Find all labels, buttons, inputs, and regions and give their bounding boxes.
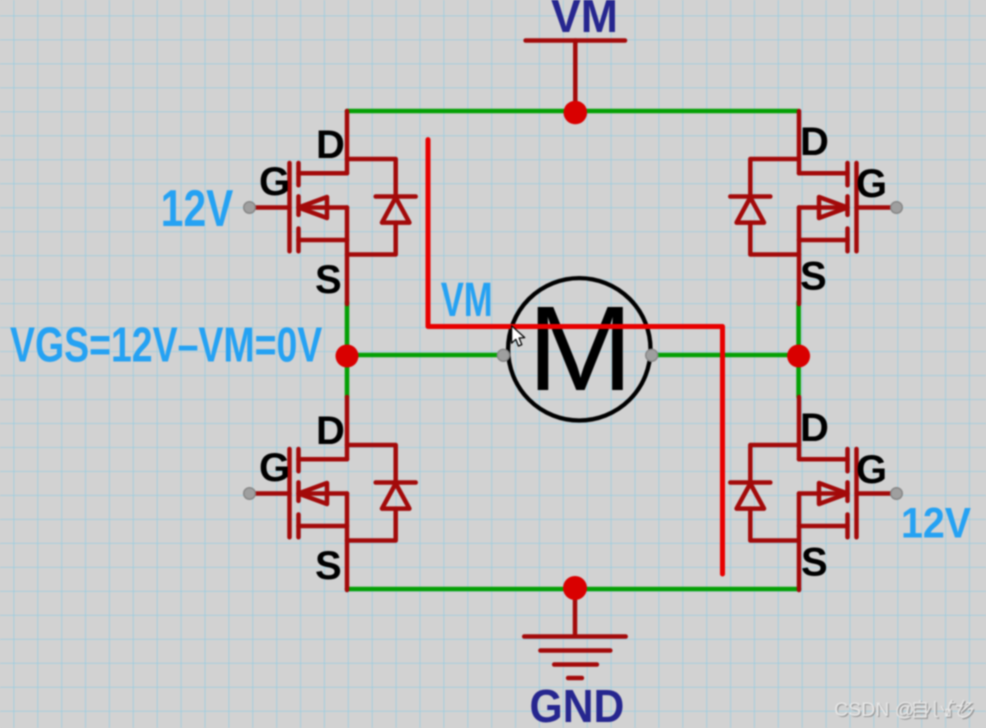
svg-text:S: S <box>315 544 342 588</box>
transistor Q1 body line <box>299 205 348 210</box>
transistor Q3 drain pin <box>345 397 350 459</box>
svg-text:G: G <box>259 446 290 490</box>
body diode of Q1 <box>347 159 416 255</box>
transistor Q4 gate pin wire <box>857 491 897 496</box>
mouse cursor <box>512 326 525 346</box>
transistor Q4 body line <box>799 491 848 496</box>
transistor Q3 gate electrode bar <box>287 449 292 537</box>
junction node on ground rail <box>563 576 587 600</box>
transistor Q2 body line <box>799 205 848 210</box>
transistor Q2 body arrow <box>819 197 848 218</box>
watermark CSDN @自小吃多 <box>834 699 973 722</box>
transistor Q2 drain-channel link <box>799 171 848 176</box>
transistor Q2 channel bar segments <box>845 163 850 251</box>
transistor Q4 body arrow <box>819 483 848 504</box>
power symbol VM (top rail) <box>526 41 625 102</box>
transistor Q4 (bottom-right NMOS) <box>730 397 902 590</box>
body diode of Q2 <box>730 159 799 255</box>
transistor Q4 source-channel link <box>799 524 848 529</box>
svg-text:D: D <box>316 123 345 167</box>
svg-text:G: G <box>856 448 887 492</box>
body diode of Q3 <box>347 445 416 541</box>
transistor Q4 drain pin <box>797 397 802 459</box>
transistor Q3 source pin <box>345 494 350 591</box>
transistor Q3 body arrow <box>299 483 328 504</box>
transistor Q1 drain-channel link <box>299 171 348 176</box>
wire: left node to Q3 drain <box>345 358 350 397</box>
transistor Q3 (bottom-left NMOS) <box>244 397 416 590</box>
transistor Q1 gate pin wire <box>250 205 290 210</box>
svg-text:D: D <box>800 406 829 450</box>
transistor Q3 drain-channel link <box>299 457 348 462</box>
transistor Q2 gate pin wire <box>857 205 897 210</box>
transistor Q3 body line <box>299 491 348 496</box>
svg-text:M: M <box>527 282 633 416</box>
wire: bottom ground rail (green) <box>347 587 799 592</box>
svg-text:S: S <box>801 541 828 585</box>
gate terminal node of Q1 <box>244 202 256 214</box>
svg-text:G: G <box>856 162 887 206</box>
wire: Q2 source to right node <box>796 302 801 352</box>
svg-text:VGS=12V–VM=0V: VGS=12V–VM=0V <box>10 318 322 373</box>
svg-text:12V: 12V <box>901 499 972 547</box>
motor M1 body <box>508 278 650 420</box>
wire: right node to Q4 drain <box>796 358 801 397</box>
junction node on VM rail <box>564 101 588 125</box>
wire VM (red highlight trace) <box>428 140 723 574</box>
svg-text:12V: 12V <box>161 179 233 237</box>
transistor Q4 channel bar segments <box>845 449 850 537</box>
transistor Q4 source pin <box>797 494 802 591</box>
transistor Q2 source pin <box>797 208 802 305</box>
body diode of Q4 <box>730 445 799 541</box>
transistor Q2 drain pin <box>797 111 802 173</box>
junction node B (right motor node) <box>787 345 810 368</box>
svg-text:GND: GND <box>530 682 625 728</box>
transistor Q1 drain pin <box>345 111 350 173</box>
wire: VM top rail (green) <box>347 109 798 114</box>
transistor Q3 source-channel link <box>299 524 348 529</box>
transistor Q1 source-channel link <box>299 238 348 243</box>
motor terminal 1 <box>497 349 509 361</box>
motor terminal 2 <box>646 349 658 361</box>
junction node A (left motor node) <box>336 345 359 368</box>
svg-text:VM: VM <box>551 0 618 42</box>
wire: left node to motor left terminal <box>347 353 504 358</box>
wire: motor right terminal to right node <box>652 353 799 358</box>
transistor Q4 drain-channel link <box>799 457 848 462</box>
transistor Q1 (top-left NMOS) <box>244 111 416 304</box>
svg-text:S: S <box>315 258 342 302</box>
transistor Q2 (top-right NMOS) <box>730 111 902 304</box>
gate terminal node of Q2 <box>891 202 903 214</box>
svg-text:D: D <box>800 120 829 164</box>
svg-text:D: D <box>316 409 345 453</box>
transistor Q3 channel bar segments <box>296 449 301 537</box>
svg-text:VM: VM <box>441 272 493 326</box>
wire: Q1 source to left node <box>345 302 350 352</box>
svg-text:S: S <box>800 255 827 299</box>
transistor Q1 body arrow <box>299 197 328 218</box>
transistor Q3 gate pin wire <box>250 491 290 496</box>
svg-text:G: G <box>259 160 290 204</box>
transistor Q1 source pin <box>345 208 350 305</box>
transistor Q1 channel bar segments <box>296 163 301 251</box>
transistor Q4 gate electrode bar <box>854 449 859 537</box>
transistor Q1 gate electrode bar <box>287 163 292 251</box>
gate terminal node of Q3 <box>244 488 256 500</box>
transistor Q2 source-channel link <box>799 238 848 243</box>
transistor Q2 gate electrode bar <box>854 163 859 251</box>
svg-text:CSDN @: CSDN @ <box>834 699 914 721</box>
ground symbol <box>524 588 626 678</box>
gate terminal node of Q4 <box>891 488 903 500</box>
